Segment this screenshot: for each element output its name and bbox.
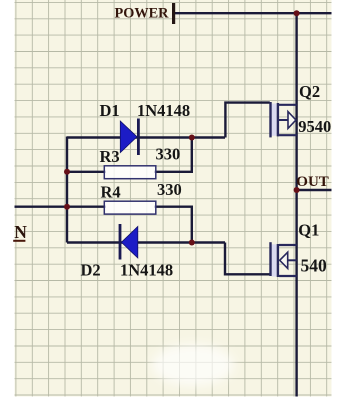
svg-text:R3: R3 — [100, 147, 120, 166]
svg-text:1N4148: 1N4148 — [137, 101, 190, 120]
power port bar — [172, 3, 175, 24]
wire OUT stub — [297, 189, 332, 191]
watermark smudge — [152, 344, 234, 386]
svg-text:330: 330 — [157, 180, 182, 199]
svg-text:R4: R4 — [101, 183, 121, 202]
junction dot POWER node — [294, 10, 300, 16]
svg-text:Q1: Q1 — [298, 221, 319, 240]
transistor Q2 (P-MOSFET 9540) — [269, 102, 296, 137]
svg-text:330: 330 — [156, 144, 181, 163]
svg-text:N: N — [14, 222, 27, 242]
wire main right vertical (POWER to bottom) — [295, 13, 297, 396]
junction dot R3 left node — [64, 169, 70, 175]
svg-text:POWER: POWER — [115, 6, 170, 22]
svg-text:1N4148: 1N4148 — [120, 261, 173, 280]
resistor R4 body — [104, 201, 156, 214]
junction dot OUT node — [294, 187, 300, 193]
wire Q1 gate route — [225, 243, 270, 275]
wire POWER rail horizontal — [174, 12, 332, 14]
transistor Q1 (N-MOSFET 540) — [269, 242, 296, 277]
wire R4 right down to D2 node — [154, 207, 192, 243]
diode D1 (anode left, cathode bar right) — [137, 119, 140, 156]
svg-text:OUT: OUT — [296, 174, 329, 190]
wire D2 row — [67, 241, 225, 243]
wire Q2 gate route — [225, 103, 269, 138]
junction dot D1/R3 node — [189, 135, 195, 141]
wire D1 row — [67, 136, 225, 138]
wire R3 left — [67, 171, 106, 173]
wire IN to R4 — [15, 205, 107, 207]
junction dot IN/R4 node — [64, 204, 70, 210]
svg-text:D1: D1 — [100, 101, 120, 120]
svg-text:9540: 9540 — [298, 117, 331, 136]
svg-text:540: 540 — [301, 256, 328, 276]
wire left vertical — [66, 137, 68, 243]
diode D2 (cathode bar left, pointing left) — [119, 224, 122, 260]
svg-text:Q2: Q2 — [299, 82, 320, 101]
junction dot D2/R4 node — [189, 240, 195, 246]
wire R3 right up to D1 node — [154, 138, 192, 172]
resistor R3 body — [104, 166, 156, 179]
svg-text:D2: D2 — [81, 261, 101, 280]
